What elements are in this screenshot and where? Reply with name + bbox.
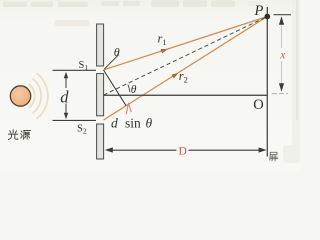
svg-text:dsinθ: dsinθ (111, 116, 153, 131)
ray r1 (S1 to P) (104, 17, 268, 71)
r2 arrowhead (171, 73, 178, 79)
x dimension arrow (279, 16, 284, 92)
r1 arrowhead (161, 49, 168, 53)
S1 level line (53, 69, 97, 71)
faint bleed-through rows (decorative) (3, 0, 300, 163)
svg-text:d: d (60, 87, 69, 106)
barrier bottom bar (97, 124, 104, 159)
S2 level line (53, 119, 97, 121)
源 (21, 131, 31, 140)
svg-text:O: O (253, 97, 263, 113)
svg-text:P: P (254, 3, 264, 19)
theta leader line at S1 (104, 55, 119, 70)
ray r2 (S2 to P) (104, 17, 268, 121)
D dimension arrow (105, 147, 267, 152)
光 (8, 130, 18, 140)
d dimension arrow (64, 72, 68, 119)
horizontal axis M to O (104, 94, 268, 96)
tick at O level (faint) (272, 93, 288, 95)
right-angle mark at foot (126, 103, 131, 114)
barrier top bar (97, 24, 104, 66)
point P dot (265, 14, 271, 20)
light source circle (10, 86, 30, 106)
dashed center line M to P (104, 17, 268, 96)
svg-text:x: x (279, 50, 286, 62)
theta arc at M (128, 85, 130, 93)
svg-text:D: D (179, 146, 187, 158)
perpendicular from S1 to foot on r2 (104, 70, 127, 106)
page edge line (296, 0, 298, 120)
svg-text:θ: θ (114, 45, 120, 59)
label 屏 (270, 152, 278, 161)
wave arcs (29, 73, 48, 118)
screen line (266, 7, 268, 157)
double-slit interference diagram (0, 0, 300, 171)
svg-text:θ: θ (131, 84, 137, 96)
barrier middle bar (97, 74, 104, 116)
label 光源 (8, 130, 30, 140)
tick at P level (274, 14, 292, 16)
